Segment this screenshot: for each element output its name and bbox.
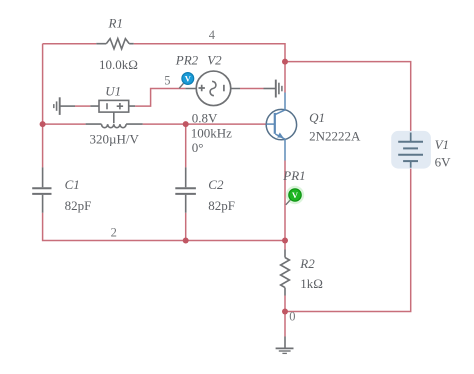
wire top-left vertical (node 4 to C1) <box>42 44 44 168</box>
junction node F (node 0) <box>282 309 288 315</box>
wire V1 bottom to node 0 <box>285 168 411 312</box>
resistor R1 <box>96 39 133 49</box>
svg-text:PR2: PR2 <box>175 53 199 68</box>
svg-text:C2: C2 <box>208 177 224 192</box>
wire emitter to R2 <box>284 161 286 250</box>
probe PR2 <box>179 73 194 89</box>
svg-text:5: 5 <box>164 74 170 88</box>
transistor Q1 <box>266 93 296 161</box>
wire C2 branch lower <box>185 213 187 241</box>
svg-text:R2: R2 <box>299 256 315 271</box>
svg-text:2: 2 <box>111 226 117 240</box>
svg-text:V: V <box>185 74 192 84</box>
inductor coil of U1 <box>86 124 143 128</box>
svg-text:V1: V1 <box>435 137 449 152</box>
AC source V2 <box>185 71 240 106</box>
svg-text:0.8V: 0.8V <box>192 111 218 126</box>
wire bottom node 2 <box>43 213 285 241</box>
svg-text:R1: R1 <box>108 16 123 31</box>
svg-text:Q1: Q1 <box>309 110 325 125</box>
svg-text:2N2222A: 2N2222A <box>309 129 361 144</box>
junction node E (collector top) <box>282 59 288 65</box>
ground right of V2 <box>264 80 282 98</box>
svg-text:100kHz: 100kHz <box>191 126 232 141</box>
resistor R2 <box>281 250 290 296</box>
wire top horizontal right of R1 <box>134 44 285 62</box>
wire mid horizontal left (node to inductor) <box>43 123 86 125</box>
svg-text:82pF: 82pF <box>65 198 92 213</box>
wire from node to V1 branch top <box>285 62 411 132</box>
svg-text:0: 0 <box>289 310 295 324</box>
svg-text:PR1: PR1 <box>282 168 305 183</box>
svg-text:U1: U1 <box>105 84 121 99</box>
svg-text:V2: V2 <box>207 53 222 68</box>
wire U1 right pin to node 5 to V2 <box>135 89 185 107</box>
wire inductor to Q1 base <box>143 123 267 125</box>
junction node D (emitter/R2) <box>282 238 288 244</box>
controlled-inductor U1 box <box>90 100 135 123</box>
ground left of U1 <box>54 97 75 115</box>
wire collector drop <box>284 62 286 93</box>
svg-text:1kΩ: 1kΩ <box>300 276 323 291</box>
probe PR1 <box>286 186 304 205</box>
junction node B (C2 top) <box>183 121 189 127</box>
svg-text:10.0kΩ: 10.0kΩ <box>99 57 138 72</box>
junction node A (left mid) <box>40 121 46 127</box>
svg-text:0°: 0° <box>192 140 204 155</box>
svg-text:6V: 6V <box>435 155 452 170</box>
svg-text:V: V <box>292 190 299 200</box>
wire U1 left pin to ground <box>75 105 90 107</box>
ground bottom <box>276 337 294 354</box>
svg-text:82pF: 82pF <box>208 198 235 213</box>
wire top horizontal left of R1 <box>43 43 97 45</box>
svg-text:4: 4 <box>209 28 216 42</box>
svg-text:320µH/V: 320µH/V <box>90 131 140 146</box>
svg-text:C1: C1 <box>65 177 80 192</box>
capacitor C1 <box>32 167 51 212</box>
wire C2 branch upper <box>185 124 187 167</box>
battery V1 <box>391 131 431 169</box>
wire R2 bottom to node 0 <box>284 296 286 337</box>
wire V2 right pin to ground <box>240 88 264 90</box>
capacitor C2 <box>175 167 196 212</box>
junction node C (C2 bottom) <box>183 238 189 244</box>
